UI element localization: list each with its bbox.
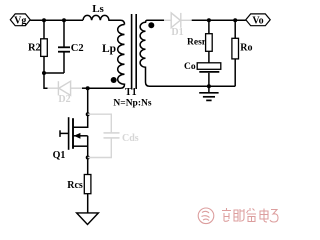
- gate bar: [68, 117, 70, 150]
- capacitor Co (output, polarized): [184, 62, 221, 86]
- watermark logo (red): [198, 208, 214, 224]
- gate lead: [60, 132, 69, 134]
- wire down to D2 cathode: [44, 73, 48, 88]
- transformer secondary winding: [140, 20, 235, 86]
- junction dot drain node top: [86, 86, 90, 90]
- source stub: [73, 145, 88, 147]
- ground (output side, earth symbol): [199, 86, 218, 100]
- junction dot at C2 top: [62, 18, 66, 22]
- polarity dot primary: [111, 77, 117, 83]
- svg-text:Lp: Lp: [102, 43, 116, 55]
- node Vg (input net flag): [10, 14, 30, 26]
- svg-text:Vg: Vg: [14, 15, 26, 26]
- junction dot Resr branch: [207, 18, 211, 22]
- wire R2/C2 bottom rail: [44, 72, 64, 74]
- resistor Ro (load): [232, 20, 253, 86]
- svg-text:Ls: Ls: [92, 3, 104, 15]
- svg-text:Ro: Ro: [240, 43, 252, 54]
- polarity dot secondary: [148, 22, 154, 28]
- wire D2 anode to drain node: [82, 87, 88, 89]
- transformer core: [132, 14, 137, 89]
- svg-text:Co: Co: [184, 62, 196, 72]
- transistor Q1 (NMOS): [53, 88, 88, 174]
- body stub with arrow: [74, 135, 88, 137]
- svg-text:Resr: Resr: [187, 38, 207, 48]
- resistor R2: [28, 20, 47, 73]
- junction dot output ground node: [207, 84, 211, 88]
- gate terminal tick: [59, 130, 61, 137]
- junction dot source (Cds tap): [86, 156, 90, 160]
- wire Vg to Ls: [30, 19, 83, 21]
- svg-text:Rcs: Rcs: [67, 180, 83, 191]
- wire D1 to Vo: [192, 19, 246, 21]
- resistor Resr: [187, 20, 212, 63]
- svg-text:D1: D1: [171, 27, 183, 38]
- node Vo (output net flag): [246, 14, 270, 26]
- resistor Rcs (current sense): [67, 175, 91, 213]
- svg-text:D2: D2: [58, 94, 70, 105]
- capacitor Cds (parasitic, inactive/gray): [88, 114, 139, 157]
- watermark text 芯朗微电子 (red): [222, 208, 278, 222]
- source vertical: [87, 136, 89, 175]
- svg-text:Cds: Cds: [122, 133, 139, 144]
- svg-text:Vo: Vo: [252, 15, 263, 26]
- capacitor C2: [58, 20, 84, 73]
- svg-text:Q1: Q1: [53, 150, 66, 161]
- diode D2 (clamp, inactive/gray, pointing left): [48, 81, 83, 105]
- svg-text:R2: R2: [28, 43, 41, 54]
- junction dot Ro branch: [233, 18, 237, 22]
- junction dot at R2 top: [42, 18, 46, 22]
- diode D1 (output rectifier, inactive/gray, pointing right): [164, 13, 192, 38]
- junction dot drain (Cds tap): [86, 112, 90, 116]
- svg-text:C2: C2: [71, 43, 84, 54]
- svg-text:N=Np:Ns: N=Np:Ns: [113, 98, 151, 108]
- inductor Ls (leakage): [83, 3, 125, 25]
- ground (source side, open triangle): [77, 213, 99, 225]
- svg-text:T1: T1: [125, 87, 137, 98]
- junction dot RC bottom: [42, 71, 46, 75]
- channel bar: [72, 118, 74, 149]
- drain stub: [73, 88, 88, 127]
- transformer T1 primary winding Lp: [88, 25, 125, 89]
